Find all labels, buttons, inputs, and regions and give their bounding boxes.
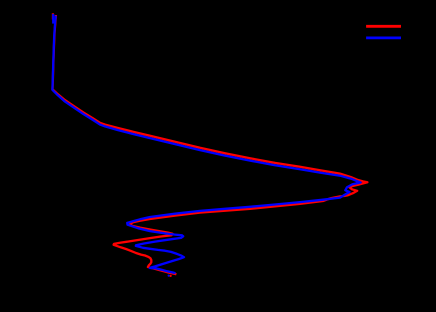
- red top dash (start of red curve fragment): [52, 13, 54, 19]
- red curve (profile 1): [53, 15, 368, 274]
- blue end dot (last data point): [168, 274, 170, 276]
- blue curve (profile 2): [52, 16, 360, 274]
- red end dot (last data point): [169, 275, 171, 277]
- legend red line swatch: [366, 25, 401, 28]
- legend blue line swatch: [366, 37, 401, 40]
- blue top dash (start of blue curve fragment): [52, 14, 54, 24]
